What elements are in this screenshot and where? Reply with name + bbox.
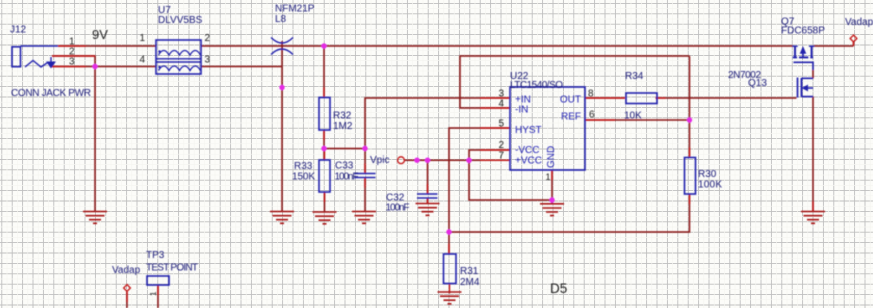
svg-text:LTC1540/SO: LTC1540/SO: [510, 80, 563, 91]
svg-text:TEST POINT: TEST POINT: [146, 263, 198, 274]
svg-text:GND: GND: [546, 146, 557, 168]
svg-text:1: 1: [149, 291, 158, 296]
svg-text:100nF: 100nF: [335, 172, 359, 183]
svg-text:DLVV5BS: DLVV5BS: [158, 15, 203, 26]
svg-text:1M2: 1M2: [333, 121, 353, 132]
svg-text:100K: 100K: [698, 180, 722, 191]
svg-text:4: 4: [499, 99, 505, 110]
svg-text:7: 7: [499, 150, 505, 161]
svg-text:D5: D5: [550, 281, 567, 296]
svg-text:J12: J12: [10, 25, 27, 36]
svg-text:8: 8: [588, 89, 594, 100]
svg-text:4: 4: [140, 55, 146, 66]
svg-text:5: 5: [499, 119, 505, 130]
svg-text:L8: L8: [275, 14, 287, 25]
svg-text:2: 2: [205, 33, 211, 44]
svg-text:CONN JACK PWR: CONN JACK PWR: [11, 88, 91, 99]
svg-text:R34: R34: [625, 71, 644, 82]
svg-text:100nF: 100nF: [386, 203, 410, 214]
svg-text:NFM21P: NFM21P: [275, 4, 315, 15]
svg-text:R31: R31: [460, 266, 479, 277]
svg-text:R32: R32: [333, 111, 352, 122]
svg-text:OUT: OUT: [560, 95, 581, 106]
svg-text:1: 1: [140, 33, 146, 44]
svg-text:Vadap: Vadap: [112, 265, 141, 276]
svg-text:+VCC: +VCC: [515, 155, 542, 166]
svg-text:HYST: HYST: [515, 125, 542, 136]
svg-text:R30: R30: [698, 169, 717, 180]
svg-text:Vadap: Vadap: [845, 17, 873, 28]
svg-text:FDC658P: FDC658P: [781, 26, 825, 37]
svg-text:3: 3: [69, 57, 75, 68]
svg-text:10K: 10K: [624, 111, 642, 122]
svg-text:9V: 9V: [92, 27, 108, 42]
svg-text:2: 2: [499, 140, 505, 151]
svg-text:C33: C33: [335, 161, 354, 172]
svg-text:-IN: -IN: [515, 105, 528, 116]
svg-text:3: 3: [205, 55, 211, 66]
svg-text:REF: REF: [561, 112, 581, 123]
svg-text:Q13: Q13: [748, 78, 767, 89]
svg-text:1: 1: [546, 172, 551, 182]
svg-text:TP3: TP3: [146, 250, 165, 261]
svg-text:6: 6: [589, 110, 595, 121]
svg-text:150K: 150K: [292, 172, 315, 183]
svg-text:Vpic: Vpic: [370, 155, 389, 166]
svg-text:2M4: 2M4: [460, 277, 480, 288]
svg-text:R33: R33: [294, 161, 313, 172]
